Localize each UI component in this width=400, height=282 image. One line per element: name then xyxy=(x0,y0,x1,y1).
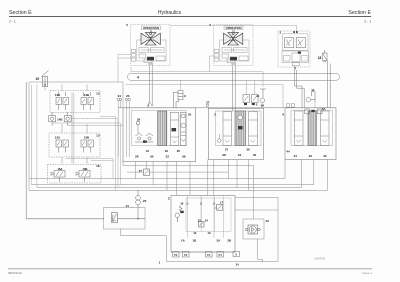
svg-text:6: 6 xyxy=(282,112,284,116)
wire stadium risers bank1 xyxy=(181,80,255,94)
svg-text:P3: P3 xyxy=(174,254,178,257)
bank1 spool 2 dark label 29 xyxy=(172,128,177,131)
bank2 spool 2 dark label xyxy=(238,126,243,129)
wire port row bus xyxy=(171,251,235,253)
bank1 spool 1 (hatched) xyxy=(158,111,167,146)
manifold block inner body xyxy=(186,198,231,231)
svg-text:33: 33 xyxy=(165,149,169,153)
svg-text:13: 13 xyxy=(96,134,100,138)
port T box xyxy=(233,252,240,257)
wire pilot V1 port circles xyxy=(149,102,151,104)
svg-text:5: 5 xyxy=(126,23,128,27)
spool valve 18B symbol xyxy=(76,171,90,183)
valve bank 3 outer body xyxy=(285,108,336,160)
bank1 relief valve 26 xyxy=(136,121,140,125)
wire left risers to boxes xyxy=(62,85,87,164)
wire aux block down elbow xyxy=(294,66,304,108)
wire pilot V2 down pair xyxy=(233,65,236,111)
wire breather 11 drop xyxy=(261,103,263,109)
svg-text:37: 37 xyxy=(225,147,229,151)
pilot controller V1 drain ports xyxy=(149,63,151,65)
inline check valve 27 xyxy=(144,169,150,176)
pilot controller V1 inner valve rects xyxy=(131,48,165,63)
bank1 spool 2 marks xyxy=(170,120,179,143)
wire left long vertical B xyxy=(28,82,30,190)
wire return L1 xyxy=(146,162,148,170)
manifold mid valve xyxy=(199,222,205,228)
svg-text:41: 41 xyxy=(294,154,298,158)
hand pump box 21 enclosure xyxy=(104,208,146,230)
svg-text:9803/3110: 9803/3110 xyxy=(8,271,22,275)
wire line L2 xyxy=(29,160,285,179)
svg-text:1A: 1A xyxy=(181,238,186,242)
svg-text:OPERATION: OPERATION xyxy=(226,26,242,30)
bank2 bottom-left relief xyxy=(218,139,222,143)
pilot controller V2 port circle xyxy=(233,30,235,32)
svg-text:18: 18 xyxy=(318,56,322,60)
pilot controller V2 drain ports xyxy=(232,63,234,65)
svg-text:34: 34 xyxy=(238,153,242,157)
pilot filter 20 body xyxy=(136,190,141,218)
svg-text:Section E: Section E xyxy=(9,10,32,16)
bank2 spool 3 xyxy=(249,112,258,146)
pilot controller V2 enclosure xyxy=(214,25,254,66)
port P1 xyxy=(206,252,213,258)
wire upper feed left xyxy=(29,82,123,108)
svg-text:1: 1 xyxy=(168,197,170,201)
hand pump 21 valve symbol xyxy=(112,213,146,223)
aux valve B xyxy=(296,38,305,48)
svg-text:Section E: Section E xyxy=(348,10,371,16)
svg-text:24: 24 xyxy=(118,94,122,98)
bank1 inner dark label 29 xyxy=(143,140,147,143)
wire manifold to pump line xyxy=(235,209,278,211)
aux lower valve dark label xyxy=(298,52,301,54)
manifold relief valve 16 xyxy=(175,206,182,223)
svg-text:18A: 18A xyxy=(58,167,63,171)
manifold relief valve 16 sub label xyxy=(180,211,183,213)
svg-text:25: 25 xyxy=(188,112,192,116)
svg-text:Hydraulics: Hydraulics xyxy=(158,10,182,16)
svg-text:27: 27 xyxy=(206,100,210,104)
bank1 right section xyxy=(181,113,187,146)
hand pump junction dot xyxy=(137,218,138,219)
pilot controller V1 enclosure xyxy=(131,25,171,66)
svg-text:13A: 13A xyxy=(55,136,61,140)
svg-text:36: 36 xyxy=(182,154,186,158)
wire pump suction down xyxy=(258,239,263,263)
bank2 spool 2 (hatched) xyxy=(235,111,246,146)
wire left long vertical C xyxy=(31,85,33,185)
valve bank 1 port 24 circles xyxy=(117,98,119,100)
pilot controller V1 spool dark block xyxy=(147,57,154,61)
wire pump feed line xyxy=(123,162,253,220)
svg-text:13B: 13B xyxy=(55,93,60,97)
aux lower valve row xyxy=(282,51,309,63)
bank3 top small valve cluster xyxy=(305,109,322,114)
wire upper feed second xyxy=(126,85,284,108)
svg-text:14: 14 xyxy=(205,218,209,222)
svg-text:27: 27 xyxy=(139,169,143,173)
svg-text:2 - 1: 2 - 1 xyxy=(364,20,371,24)
bank1 check valves bottom-left xyxy=(135,133,154,142)
svg-text:32: 32 xyxy=(165,154,169,158)
pilot controller V2 inner valve rects xyxy=(214,48,248,63)
wire filter down pair xyxy=(328,61,331,108)
pilot relief pair 14B xyxy=(49,112,71,125)
wire filter 20 riser xyxy=(131,207,133,208)
svg-text:16: 16 xyxy=(180,201,184,205)
wire box A to bank1 bundle xyxy=(52,117,123,191)
solenoid valve 13B right symbol xyxy=(81,92,94,110)
svg-text:31: 31 xyxy=(146,149,150,153)
wire supply 8 main line xyxy=(118,107,336,109)
wire pilot V2 left port stub xyxy=(210,56,215,72)
bank3 spool 2 (hatched) xyxy=(308,111,317,146)
svg-text:2A: 2A xyxy=(217,238,222,242)
wire left long vertical A xyxy=(26,82,104,219)
svg-text:14B: 14B xyxy=(57,117,62,121)
svg-text:30: 30 xyxy=(150,154,154,158)
svg-text:A380930: A380930 xyxy=(314,257,326,261)
svg-text:13: 13 xyxy=(96,92,100,96)
svg-text:P1: P1 xyxy=(207,254,211,257)
svg-text:23: 23 xyxy=(126,94,130,98)
valve bank 1 inner body xyxy=(132,111,187,146)
svg-text:13: 13 xyxy=(207,231,211,235)
pilot controller V2 joystick cross xyxy=(224,33,243,46)
port P3 xyxy=(173,252,180,258)
svg-text:40: 40 xyxy=(253,153,257,157)
solenoid valve 13B left symbol xyxy=(56,92,69,110)
svg-text:44: 44 xyxy=(286,149,290,153)
svg-text:1B: 1B xyxy=(192,238,196,242)
valve bank 3 inner body xyxy=(291,111,333,146)
wire box A central pair xyxy=(72,93,74,164)
valve bank 1 outer body xyxy=(123,108,196,162)
svg-text:14: 14 xyxy=(235,263,239,267)
svg-text:8: 8 xyxy=(236,254,238,257)
breather 11 symbol xyxy=(260,89,266,103)
aux feed wire from header area xyxy=(170,25,296,31)
bank1 spool 2 xyxy=(170,112,179,145)
aux top port dark dots xyxy=(293,31,295,33)
breather 12 symbol xyxy=(306,92,315,103)
pump box enclosure xyxy=(243,219,264,239)
svg-text:P2: P2 xyxy=(184,254,188,257)
wire pump right vertical xyxy=(277,198,279,262)
manifold top ports xyxy=(186,203,188,205)
bank1 top pilot valve 9 xyxy=(173,91,183,108)
bank3 spool 1 xyxy=(295,111,304,146)
solenoid valve 13A symbol xyxy=(56,140,69,153)
svg-text:26: 26 xyxy=(137,118,141,122)
svg-text:18B: 18B xyxy=(83,167,88,171)
svg-text:12: 12 xyxy=(311,88,315,92)
wire manifold right link xyxy=(235,197,278,199)
wire hand pump route xyxy=(121,229,167,262)
wire line L3 xyxy=(32,160,314,185)
svg-text:11: 11 xyxy=(256,94,259,98)
aux valve block enclosure xyxy=(278,31,310,67)
wire bank1 drops xyxy=(136,162,191,196)
svg-text:43: 43 xyxy=(323,154,327,158)
manifold internal verticals xyxy=(187,196,223,239)
bank2 pilot caps labels xyxy=(244,103,247,105)
svg-text:42: 42 xyxy=(309,154,313,158)
solenoid valve 13B lower symbol xyxy=(81,140,94,153)
svg-text:1: 1 xyxy=(159,261,161,265)
svg-text:Issue 1: Issue 1 xyxy=(362,271,372,275)
wire top interconnect xyxy=(131,67,263,87)
svg-text:2 - 1: 2 - 1 xyxy=(9,20,16,24)
valve bank 2 port 27 circle xyxy=(206,104,209,107)
wire line L4 xyxy=(37,160,301,188)
aux valve A xyxy=(285,38,294,48)
pilot controller V1 port circle xyxy=(150,30,152,32)
header rule xyxy=(9,16,371,18)
bank3 top cluster dark label xyxy=(311,110,314,112)
solenoid box A enclosure xyxy=(50,91,100,113)
svg-text:2B: 2B xyxy=(227,238,231,242)
svg-text:6A: 6A xyxy=(322,107,326,111)
wire 19 valve feed xyxy=(44,87,46,91)
svg-text:20: 20 xyxy=(143,199,147,203)
svg-text:38: 38 xyxy=(222,153,226,157)
svg-text:9: 9 xyxy=(184,94,186,98)
hose run 4 outline xyxy=(128,73,340,80)
wire line L5 xyxy=(29,160,328,191)
bank2 top pilot caps xyxy=(243,95,258,103)
wire pilot V1 left port stubs xyxy=(118,55,131,83)
svg-text:39: 39 xyxy=(246,147,250,151)
svg-text:8: 8 xyxy=(148,104,150,108)
pilot controller V2 spool dark block xyxy=(230,57,237,61)
wire left long vertical D xyxy=(36,85,38,188)
aux bottom port box xyxy=(292,63,299,66)
wire box B to bank1 bundle xyxy=(66,159,113,179)
filter F1 body xyxy=(323,50,328,62)
svg-text:13: 13 xyxy=(265,219,269,223)
flow regulator 19 symbol xyxy=(42,71,49,87)
bank2 spool 1 xyxy=(223,112,232,146)
pilot controller V1 joystick cross xyxy=(141,33,160,46)
pilot controller V1 title xyxy=(142,26,161,30)
svg-text:15: 15 xyxy=(198,218,202,222)
valve bank 2 outer body xyxy=(208,108,263,159)
solenoid box C enclosure xyxy=(48,165,102,184)
svg-text:4: 4 xyxy=(137,76,139,80)
port P4 xyxy=(217,252,224,258)
svg-text:13B: 13B xyxy=(84,93,89,97)
wire pilot V1 down pair xyxy=(150,65,153,104)
manifold valve 17 xyxy=(215,204,223,210)
svg-text:OPERATION: OPERATION xyxy=(143,26,159,30)
wire bank2 drops xyxy=(208,160,249,196)
svg-text:12: 12 xyxy=(193,231,197,235)
wire bottom return run xyxy=(166,261,278,263)
wire line L1 xyxy=(127,171,144,173)
bank3 inlet fitting cluster xyxy=(287,104,295,107)
svg-text:P4: P4 xyxy=(219,254,223,257)
wire bank1 port drops xyxy=(118,101,129,157)
wire breather 12 drop xyxy=(314,102,316,108)
valve bank 1 port 23 circles xyxy=(125,98,127,100)
footer rule xyxy=(8,268,372,270)
bank2 spool 2 relief circle xyxy=(238,115,243,120)
svg-text:21: 21 xyxy=(126,204,130,208)
svg-text:19: 19 xyxy=(35,77,39,81)
svg-text:17: 17 xyxy=(220,200,224,204)
manifold block enclosure xyxy=(171,196,235,253)
svg-text:35: 35 xyxy=(177,149,181,153)
svg-text:18: 18 xyxy=(96,164,100,168)
bank3 spool 3 xyxy=(321,111,330,146)
solenoid box B enclosure xyxy=(49,133,100,157)
valve bank 2 inner body xyxy=(216,111,262,146)
spool valve 18A symbol xyxy=(51,171,65,183)
svg-text:5: 5 xyxy=(256,103,258,107)
pump symbol xyxy=(245,225,260,234)
pilot controller V2 title bar xyxy=(224,26,243,30)
svg-text:13B: 13B xyxy=(84,136,89,140)
svg-text:28: 28 xyxy=(135,154,139,158)
port P2 xyxy=(183,252,190,258)
